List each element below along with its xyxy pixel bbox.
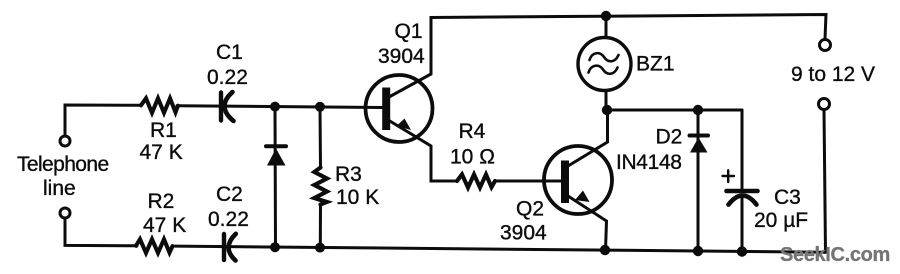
svg-text:9 to 12 V: 9 to 12 V: [791, 63, 875, 86]
svg-text:Q2: Q2: [516, 198, 544, 221]
svg-text:R1: R1: [150, 119, 177, 142]
svg-text:20 µF: 20 µF: [754, 209, 808, 232]
svg-text:3904: 3904: [500, 222, 547, 245]
svg-text:C1: C1: [216, 41, 243, 64]
svg-text:R2: R2: [148, 190, 175, 213]
svg-text:C3: C3: [774, 186, 801, 209]
svg-text:47 K: 47 K: [140, 141, 183, 164]
svg-text:D2: D2: [656, 126, 683, 149]
svg-text:3904: 3904: [378, 45, 425, 68]
svg-text:SeekIC.com: SeekIC.com: [780, 244, 890, 266]
svg-text:R4: R4: [459, 120, 486, 143]
svg-text:0.22: 0.22: [207, 66, 248, 89]
svg-text:R3: R3: [335, 163, 362, 186]
svg-text:10 K: 10 K: [336, 186, 379, 209]
svg-text:47 K: 47 K: [143, 214, 186, 237]
svg-text:Telephone: Telephone: [17, 153, 109, 176]
svg-text:10 Ω: 10 Ω: [450, 146, 495, 169]
svg-text:0.22: 0.22: [208, 208, 249, 231]
svg-text:line: line: [43, 177, 76, 200]
svg-text:Q1: Q1: [395, 20, 423, 43]
svg-text:BZ1: BZ1: [636, 53, 675, 76]
svg-text:C2: C2: [216, 183, 243, 206]
svg-text:IN4148: IN4148: [616, 151, 682, 174]
